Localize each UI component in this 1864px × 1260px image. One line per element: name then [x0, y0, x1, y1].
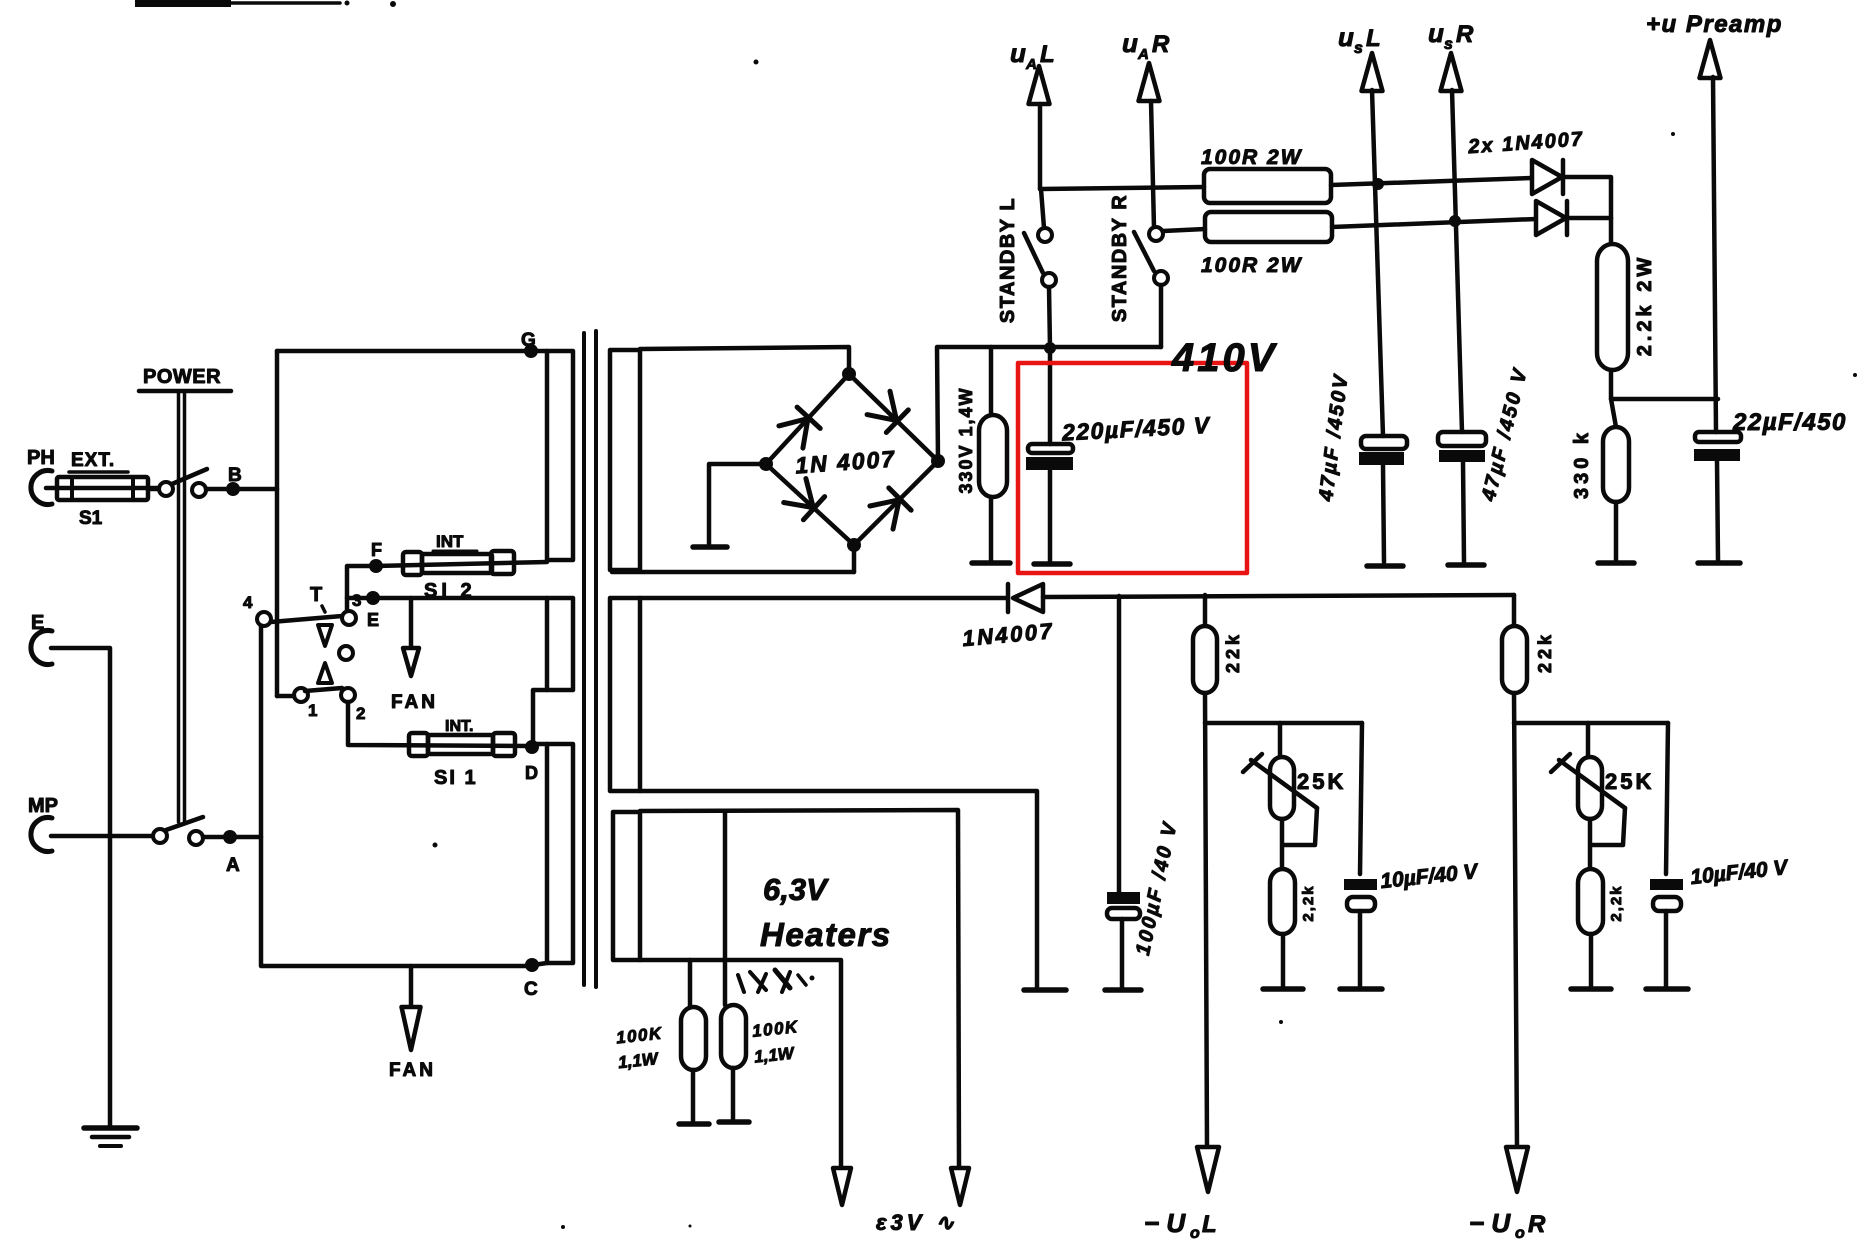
svg-text:25K: 25K [1605, 769, 1654, 794]
svg-text:2,2k: 2,2k [1300, 884, 1317, 921]
wire switch pole2 to vertical rail [203, 835, 261, 840]
fuse SI2 (INT) [378, 532, 547, 602]
wire E to ground rail [51, 648, 110, 1126]
wire diode to 22k rails [1043, 595, 1514, 597]
svg-text:G: G [521, 330, 536, 351]
svg-text:A: A [226, 855, 240, 876]
highlight red box [1018, 363, 1247, 573]
svg-text:− U: − U [1469, 1208, 1511, 1238]
resistor 2.2k 2W [1597, 244, 1656, 370]
wire box top edge (B rail to primary winding, node G) [277, 349, 547, 354]
wire bridge + output to standby rail [937, 347, 1161, 461]
svg-text:22k: 22k [1223, 631, 1243, 673]
wire contact 2 to fuse SI1 [348, 702, 533, 746]
label 410V [1171, 336, 1278, 380]
bridge node left [759, 457, 773, 471]
svg-text:410V: 410V [1171, 336, 1278, 380]
bridge label AN4007 [794, 445, 897, 478]
output arrow -Uo L [1144, 1147, 1219, 1242]
svg-text:L: L [1202, 1211, 1217, 1238]
wire 2.2k to preamp rail [1611, 370, 1718, 427]
POWER switch label and linkage [139, 366, 231, 822]
node C [524, 958, 539, 1000]
output +U Preamp [1646, 11, 1783, 432]
svg-text:u: u [1338, 22, 1354, 52]
svg-text:2x 1N4007: 2x 1N4007 [1467, 128, 1585, 158]
svg-text:SI 2: SI 2 [424, 580, 476, 602]
bridge diode bottom-left [784, 479, 825, 520]
selector T contact 1 [294, 688, 317, 720]
fuse SI1 (INT.) [409, 718, 515, 789]
wire bottom edge (selector rail to node C) [261, 619, 533, 966]
svg-text:FAN: FAN [391, 692, 438, 713]
svg-text:FAN: FAN [389, 1060, 436, 1081]
node F [369, 540, 383, 573]
svg-text:22k: 22k [1535, 631, 1555, 673]
svg-text:2,2k: 2,2k [1608, 884, 1625, 921]
FAN output arrow upper [391, 598, 438, 713]
svg-text:R: R [1528, 1211, 1546, 1238]
selector T blade 1-2 [305, 688, 342, 691]
svg-text:1N 4007: 1N 4007 [794, 445, 897, 478]
connector MP (mains neutral input) [28, 795, 58, 852]
svg-text:MP: MP [28, 795, 58, 817]
capacitor 10uF/40V right [1646, 856, 1790, 989]
bridge node bottom [847, 538, 861, 552]
svg-text:10µF/40 V: 10µF/40 V [1689, 856, 1790, 889]
resistor 330V 1.4W bleeder [956, 347, 1010, 563]
svg-text:1: 1 [308, 701, 317, 720]
output arrow UA R [1122, 28, 1170, 228]
label 100uF/40V [1132, 819, 1182, 957]
selector neutral contact O [339, 646, 353, 660]
svg-text:1,1W: 1,1W [753, 1043, 796, 1066]
selector arrow down [318, 625, 332, 646]
svg-text:A: A [1137, 46, 1149, 63]
svg-text:INT: INT [436, 532, 464, 551]
selector T blade 4-3 [271, 616, 342, 622]
transformer primary winding 2 [547, 598, 573, 690]
output arrow UB R [1428, 18, 1474, 432]
svg-text:STANDBY R: STANDBY R [1109, 194, 1131, 322]
svg-text:R: R [1456, 21, 1474, 48]
transformer secondary winding 1 (HT) [610, 350, 640, 570]
selector T contact 4 [243, 593, 271, 626]
node B [226, 465, 242, 496]
wire MP to switch pole 2 [51, 834, 153, 839]
svg-text:A: A [1025, 56, 1037, 73]
wire heater winding bottom rail [640, 960, 841, 1168]
capacitor 10uF/40V left [1340, 860, 1480, 989]
node 410V junction [1044, 342, 1056, 354]
bridge frame wires [766, 374, 938, 545]
selector T contact 2 [341, 688, 365, 723]
bridge diode top-right [867, 391, 908, 432]
node E (selector output) [366, 591, 380, 630]
node G [521, 330, 538, 358]
wire box left edge [275, 351, 280, 696]
wire D jog to primary winding 2 bottom [533, 690, 547, 745]
wire row2 to diode D2 [1332, 219, 1536, 227]
connector PH (mains phase input) [27, 447, 55, 505]
svg-text:25K: 25K [1297, 769, 1346, 794]
svg-text:100K: 100K [751, 1017, 800, 1041]
svg-text:L: L [1366, 25, 1381, 52]
svg-text:s: s [1444, 36, 1453, 53]
svg-text:o: o [1190, 1225, 1200, 1242]
svg-text:E: E [367, 610, 379, 630]
svg-text:47µF /450V: 47µF /450V [1315, 372, 1353, 504]
svg-text:100R 2W: 100R 2W [1201, 254, 1303, 277]
diode 1N4007 bias [961, 584, 1055, 651]
selector label T [310, 584, 325, 612]
capacitor 220uF/450V [1026, 349, 1073, 564]
svg-text:S1: S1 [79, 508, 103, 529]
bridge diode bottom-right [870, 488, 911, 529]
svg-text:SI 1: SI 1 [434, 767, 478, 789]
svg-text:E: E [31, 612, 44, 634]
capacitor 22uF/450V [1694, 409, 1847, 563]
connector E (earth input) [31, 612, 52, 665]
svg-text:22µF/450: 22µF/450 [1732, 409, 1847, 436]
svg-text:ε3V ∿: ε3V ∿ [876, 1210, 958, 1235]
resistor 100K 1,1W right [719, 812, 800, 1122]
capacitor 47uF/450V right [1438, 432, 1486, 565]
wire HT winding top to bridge [640, 347, 849, 374]
svg-text:PH: PH [27, 447, 55, 469]
svg-text:1,1W: 1,1W [617, 1049, 660, 1072]
wire diodes to 2.2k [1564, 177, 1611, 244]
svg-text:100K: 100K [615, 1024, 664, 1048]
wire bias winding to diode [640, 596, 1006, 601]
title underline fragment [135, 0, 396, 7]
svg-text:B: B [228, 465, 242, 486]
trimmer 25K left [1243, 723, 1346, 845]
svg-text:Heaters: Heaters [760, 916, 892, 953]
label 220uF/450V [1060, 412, 1211, 446]
bridge ground stub [693, 464, 766, 547]
svg-text:R: R [1152, 31, 1170, 58]
wire switch to node B to box left edge [206, 487, 277, 492]
switch STANDBY R [1109, 194, 1168, 347]
scan specks [433, 60, 1858, 1230]
wire UA L row to resistor 100R [1040, 187, 1204, 189]
svg-text:100R 2W: 100R 2W [1201, 146, 1303, 169]
switch POWER pole 2 [153, 817, 203, 845]
label 2x 1N4007 [1467, 128, 1585, 158]
svg-text:u: u [1010, 38, 1026, 68]
transformer primary winding 1 [547, 351, 573, 560]
FAN output arrow lower [389, 966, 436, 1081]
transformer secondary winding 3 (heaters) [613, 812, 640, 960]
resistor 100K 1,1W left [615, 960, 709, 1124]
svg-text:D: D [525, 763, 538, 783]
diode D1 1N4007 [1532, 160, 1563, 194]
scribble annotation [738, 970, 815, 992]
resistor 100R 2W lower [1201, 212, 1332, 277]
svg-text:3: 3 [352, 591, 361, 610]
label 6,3V ~ output [876, 1210, 958, 1235]
svg-text:EXT.: EXT. [71, 450, 115, 471]
switch POWER pole 1 [159, 469, 207, 497]
wire fuse S1 to power switch [148, 487, 159, 492]
wire heater winding top rail [640, 810, 959, 1168]
svg-text:L: L [1040, 41, 1055, 68]
wire F to contact 3 [347, 566, 376, 611]
svg-text:100µF /40 V: 100µF /40 V [1132, 819, 1182, 957]
svg-text:330 k: 330 k [1571, 429, 1593, 499]
svg-text:330V 1,4W: 330V 1,4W [956, 386, 976, 493]
resistor 22k left [1193, 595, 1243, 1147]
wire HT winding bottom to bridge [612, 545, 854, 572]
transformer secondary winding 2 (bias) [610, 598, 640, 791]
resistor 330k [1571, 427, 1634, 563]
wire bias winding bottom to ground [640, 791, 1066, 990]
resistor 100R 2W upper [1201, 146, 1331, 203]
wire PH to fuse S1 [46, 486, 160, 491]
heater output arrow right [951, 1168, 969, 1205]
label 47uF/450V left [1315, 372, 1353, 504]
label 6,3V Heaters [760, 872, 892, 953]
node UB R tap [1449, 215, 1461, 227]
svg-text:4: 4 [243, 593, 253, 612]
heater output arrow left [833, 1168, 851, 1205]
svg-text:INT.: INT. [445, 718, 473, 735]
node UB L tap [1372, 178, 1384, 190]
svg-text:6,3V: 6,3V [763, 872, 829, 907]
bridge diode top-left [779, 407, 820, 448]
svg-text:o: o [1515, 1225, 1525, 1242]
switch STANDBY L [997, 189, 1056, 348]
output arrow UA L [1010, 38, 1055, 189]
fuse S1 (EXT.) [57, 450, 148, 529]
trimmer 25K right [1551, 723, 1654, 845]
earth ground symbol [84, 1128, 137, 1146]
svg-text:F: F [371, 540, 382, 560]
svg-text:u: u [1428, 18, 1444, 48]
wire box edge to contact 1 [277, 694, 294, 699]
bridge node right [931, 454, 945, 468]
node A [223, 830, 240, 876]
svg-text:T: T [310, 584, 322, 606]
svg-text:s: s [1354, 40, 1363, 57]
selector T contact 3 [342, 591, 361, 625]
svg-text:220µF/450 V: 220µF/450 V [1060, 412, 1211, 446]
svg-text:+u Preamp: +u Preamp [1646, 11, 1783, 38]
output arrow UB L [1338, 22, 1383, 436]
wire trimmer branch left [1205, 723, 1362, 874]
capacitor 100uF/40V [1105, 596, 1141, 990]
selector arrow up [318, 663, 332, 683]
wire trimmer branch right [1514, 723, 1668, 874]
wire row1 to diode D1 [1331, 178, 1532, 185]
transformer primary winding 3 [533, 744, 573, 965]
svg-text:2: 2 [356, 704, 365, 723]
transformer core [584, 331, 596, 987]
svg-text:2.2k 2W: 2.2k 2W [1634, 254, 1656, 356]
wire E row to primary winding 2 [347, 596, 547, 601]
node D [525, 740, 539, 783]
svg-text:u: u [1122, 28, 1138, 58]
capacitor 47uF/450V left [1359, 436, 1407, 566]
svg-text:− U: − U [1144, 1208, 1186, 1238]
svg-text:10µF/40 V: 10µF/40 V [1379, 860, 1480, 893]
resistor 2.2k right (bias divider) [1571, 819, 1625, 989]
svg-text:1N4007: 1N4007 [961, 618, 1055, 651]
wire UA R row to resistor 100R [1163, 229, 1205, 231]
resistor 2.2k left (bias divider) [1263, 819, 1317, 989]
svg-text:STANDBY L: STANDBY L [997, 197, 1019, 323]
svg-text:POWER: POWER [143, 366, 221, 388]
label 47uF/450V right [1478, 365, 1533, 504]
svg-text:C: C [524, 979, 538, 1000]
bridge node top [842, 367, 856, 381]
output arrow -Uo R [1469, 1147, 1546, 1242]
diode D2 1N4007 [1536, 201, 1567, 235]
resistor 22k right [1502, 595, 1555, 1147]
